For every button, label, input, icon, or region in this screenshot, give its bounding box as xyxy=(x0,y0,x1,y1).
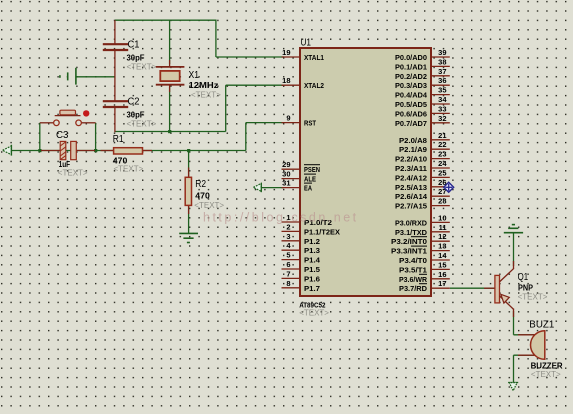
wire XTAL2 vertical xyxy=(225,85,227,131)
pin 26 P2.5/A13 stub xyxy=(431,186,450,188)
svg-text:P3.3/INT1: P3.3/INT1 xyxy=(391,247,427,256)
svg-text:P2.3/A11: P2.3/A11 xyxy=(395,164,427,173)
svg-text:37: 37 xyxy=(438,67,446,76)
svg-text:16: 16 xyxy=(438,270,446,279)
pin 18 XTAL2 stub xyxy=(282,84,301,86)
wire XTAL2 pin18 horizontal xyxy=(226,84,284,86)
svg-text:8: 8 xyxy=(286,279,290,288)
svg-text:32: 32 xyxy=(438,114,446,123)
svg-text:BUZ1: BUZ1 xyxy=(529,320,554,331)
junction crystal-bottom xyxy=(168,130,171,133)
pin 19 XTAL1 stub xyxy=(282,56,301,58)
transistor Q1 PNP xyxy=(495,268,514,309)
pin 12 P3.2/INT0 stub xyxy=(431,240,450,242)
wire Q1 collector to ground xyxy=(513,233,515,266)
overline WR xyxy=(419,273,427,275)
overline RD xyxy=(419,283,427,285)
wire into RST pin9 xyxy=(246,122,284,124)
svg-text:24: 24 xyxy=(438,159,447,168)
junction button-left xyxy=(38,149,41,152)
svg-text:U1: U1 xyxy=(301,38,312,49)
svg-text:34: 34 xyxy=(438,95,447,104)
svg-text:P0.1/AD1: P0.1/AD1 xyxy=(395,62,427,71)
pin segment R2 bottom xyxy=(188,205,190,214)
wire crystal top branch xyxy=(169,20,171,64)
svg-text:33: 33 xyxy=(438,104,446,113)
overline PSEN xyxy=(304,164,320,166)
wire button right branch vertical xyxy=(95,123,97,151)
pin segment button left xyxy=(40,122,54,124)
svg-text:<TEXT>: <TEXT> xyxy=(191,91,221,100)
svg-text:XTAL2: XTAL2 xyxy=(304,81,324,90)
svg-text:12: 12 xyxy=(438,232,446,241)
svg-text:29: 29 xyxy=(282,160,290,169)
wire into XTAL1 pin19 xyxy=(216,56,284,58)
svg-text:12MHz: 12MHz xyxy=(189,81,219,90)
pin segment Q1 base xyxy=(484,287,495,289)
pin segment Q1 collector xyxy=(513,261,515,269)
wire Q1 emitter down xyxy=(513,311,515,335)
pin 23 P2.2/A10 stub xyxy=(431,158,450,160)
wire ground tap C1/C2 midpoint xyxy=(76,76,115,78)
pin 35 P0.4/AD4 stub xyxy=(431,94,450,96)
svg-text:14: 14 xyxy=(438,251,447,260)
svg-text:ALE: ALE xyxy=(304,175,316,184)
pin 7 P1.6 stub xyxy=(282,277,301,279)
svg-text:18: 18 xyxy=(282,76,290,85)
svg-text:23: 23 xyxy=(438,150,446,159)
pin 36 P0.3/AD3 stub xyxy=(431,84,450,86)
capacitor C3 xyxy=(60,141,76,159)
pin 14 P3.4/T0 stub xyxy=(431,259,450,261)
svg-text:P0.6/AD6: P0.6/AD6 xyxy=(395,109,427,118)
pin 32 P0.7/AD7 stub xyxy=(431,122,450,124)
svg-text:15: 15 xyxy=(438,260,446,269)
pin 31 EA stub xyxy=(282,187,301,189)
svg-text:P2.6/A14: P2.6/A14 xyxy=(395,192,428,201)
svg-text:<TEXT>: <TEXT> xyxy=(127,120,157,129)
pin segment C3 right xyxy=(77,150,96,152)
wire crystal bottom branch xyxy=(169,87,171,132)
svg-text:21: 21 xyxy=(438,131,446,140)
pin 11 P3.1/TXD stub xyxy=(431,231,450,233)
resistor R1 xyxy=(114,148,143,154)
svg-text:PSEN: PSEN xyxy=(304,165,320,174)
svg-text:36: 36 xyxy=(438,76,446,85)
wire buzzer bottom pin xyxy=(514,354,536,356)
svg-text:P0.2/AD2: P0.2/AD2 xyxy=(395,72,427,81)
svg-text:P1.1/T2EX: P1.1/T2EX xyxy=(304,227,340,236)
wire buzzer to output terminal xyxy=(513,355,515,382)
svg-text:P1.7: P1.7 xyxy=(304,284,320,293)
capacitor C1 xyxy=(103,20,128,100)
svg-text:P1.4: P1.4 xyxy=(304,256,321,265)
pin 13 P3.3/INT1 stub xyxy=(431,250,450,252)
pin 34 P0.5/AD5 stub xyxy=(431,103,450,105)
svg-text:P0.7/AD7: P0.7/AD7 xyxy=(395,119,427,128)
svg-text:P3.0/RXD: P3.0/RXD xyxy=(395,218,428,227)
pin segment buzzer bottom xyxy=(518,354,535,356)
svg-text:38: 38 xyxy=(438,57,446,66)
pin 29 PSEN stub xyxy=(282,168,301,170)
svg-text:P0.0/AD0: P0.0/AD0 xyxy=(395,53,427,62)
overline INT1 xyxy=(411,245,427,247)
svg-text:P1.6: P1.6 xyxy=(304,274,320,283)
svg-text:P1.3: P1.3 xyxy=(304,246,320,255)
svg-text:10: 10 xyxy=(438,213,446,222)
svg-text:25: 25 xyxy=(438,168,446,177)
svg-text:C2: C2 xyxy=(128,97,140,108)
svg-text:3: 3 xyxy=(286,232,290,241)
svg-text:P2.7/A15: P2.7/A15 xyxy=(395,202,427,211)
wire P3.7 to Q1 base xyxy=(450,287,495,289)
svg-text:22: 22 xyxy=(438,140,446,149)
svg-text:13: 13 xyxy=(438,242,446,251)
svg-text:http://blog.csdn.net: http://blog.csdn.net xyxy=(203,211,359,225)
wire EA pin31 to terminal xyxy=(261,187,284,189)
svg-text:X1: X1 xyxy=(189,70,200,81)
svg-text:Q1: Q1 xyxy=(518,272,529,283)
svg-text:P3.7/RD: P3.7/RD xyxy=(399,284,428,293)
pin 24 P2.3/A11 stub xyxy=(431,167,450,169)
pin segment crystal top xyxy=(169,60,171,67)
wire button left branch vertical xyxy=(39,123,41,151)
svg-text:19: 19 xyxy=(282,48,290,57)
svg-text:P3.2/INT0: P3.2/INT0 xyxy=(391,237,427,246)
overline ALE xyxy=(304,173,316,175)
svg-text:5: 5 xyxy=(286,251,290,260)
svg-text:C3: C3 xyxy=(56,130,69,141)
pin 37 P0.2/AD2 stub xyxy=(431,75,450,77)
svg-text:<TEXT>: <TEXT> xyxy=(127,63,157,72)
svg-text:R1: R1 xyxy=(113,134,124,145)
buzzer BUZ1 xyxy=(531,331,545,360)
pin 5 P1.4 stub xyxy=(282,259,301,261)
pin 2 P1.1/T2EX stub xyxy=(282,230,301,232)
pin 17 P3.7/RD stub xyxy=(431,287,450,289)
svg-text:RST: RST xyxy=(304,119,316,128)
svg-text:P0.4/AD4: P0.4/AD4 xyxy=(395,91,428,100)
pin 10 P3.0/RXD stub xyxy=(431,221,450,223)
pin segment button right xyxy=(81,122,95,124)
microcontroller U1 AT89C52 xyxy=(282,38,450,297)
ground above Q1 collector (flipped) xyxy=(504,225,523,233)
svg-text:<TEXT>: <TEXT> xyxy=(531,370,561,379)
op-amp-style chip body U1 AT89C52 xyxy=(300,48,431,296)
ground below R2 xyxy=(179,233,198,242)
pin 15 P3.5/T1 stub xyxy=(431,268,450,270)
junction R2-tap xyxy=(187,149,190,152)
pin 39 P0.0/AD0 stub xyxy=(431,56,450,58)
svg-text:P0.3/AD3: P0.3/AD3 xyxy=(395,81,427,90)
pin segment R2 top xyxy=(188,168,190,178)
wire vertical down to XTAL1 row xyxy=(215,20,217,58)
svg-text:PNP: PNP xyxy=(518,284,534,293)
pin 28 P2.7/A15 stub xyxy=(431,205,450,207)
wire up to RST xyxy=(245,123,247,151)
pin 8 P1.7 stub xyxy=(282,287,301,289)
svg-text:39: 39 xyxy=(438,48,446,57)
blue wire-end cursor marker at pin 26 xyxy=(444,182,454,192)
wire top rail C1-top to XTAL1 branch xyxy=(115,19,216,21)
terminal output arrow down (buzzer net) xyxy=(508,383,518,391)
pin 22 P2.1/A9 stub xyxy=(431,148,450,150)
pin 27 P2.6/A14 stub xyxy=(431,195,450,197)
pin segment crystal bottom xyxy=(169,85,171,92)
svg-text:<TEXT>: <TEXT> xyxy=(518,293,548,302)
junction button-right xyxy=(94,149,97,152)
svg-text:28: 28 xyxy=(438,197,446,206)
svg-text:P3.6/WR: P3.6/WR xyxy=(399,275,428,284)
pin 25 P2.4/A12 stub xyxy=(431,176,450,178)
svg-text:P3.5/T1: P3.5/T1 xyxy=(399,265,427,274)
button red indicator dot xyxy=(83,110,89,116)
svg-text:P2.5/A13: P2.5/A13 xyxy=(395,183,427,192)
pin 33 P0.6/AD6 stub xyxy=(431,112,450,114)
pin segment buzzer top xyxy=(518,334,535,336)
capacitor C2 xyxy=(103,101,128,132)
svg-text:P1.5: P1.5 xyxy=(304,265,320,274)
wire R2 to ground xyxy=(188,205,190,233)
svg-text:C1: C1 xyxy=(128,40,140,51)
svg-text:P3.4/T0: P3.4/T0 xyxy=(399,256,427,265)
svg-text:9: 9 xyxy=(286,114,290,123)
svg-text:<TEXT>: <TEXT> xyxy=(299,309,329,318)
terminal input arrow EA xyxy=(253,183,261,192)
pin segment R1 right xyxy=(143,150,153,152)
pin 1 P1.0/T2 stub xyxy=(282,221,301,223)
push button xyxy=(54,110,82,125)
svg-text:P2.1/A9: P2.1/A9 xyxy=(399,145,427,154)
svg-text:XTAL1: XTAL1 xyxy=(304,53,324,62)
pin segment C3 left xyxy=(41,150,60,152)
svg-text:30pF: 30pF xyxy=(127,54,145,63)
wire bottom of crystal to C2 xyxy=(115,131,226,133)
pin 6 P1.5 stub xyxy=(282,268,301,270)
pin 30 ALE stub xyxy=(282,178,301,180)
svg-text:R2: R2 xyxy=(195,179,206,190)
svg-text:<TEXT>: <TEXT> xyxy=(114,165,144,174)
svg-text:17: 17 xyxy=(438,279,446,288)
svg-text:P2.4/A12: P2.4/A12 xyxy=(395,173,427,182)
ground left (C1/C2 midpoint) xyxy=(60,68,76,85)
svg-text:31: 31 xyxy=(282,179,290,188)
svg-text:P2.0/A8: P2.0/A8 xyxy=(399,136,427,145)
svg-text:30pF: 30pF xyxy=(127,111,145,120)
svg-text:7: 7 xyxy=(286,269,290,278)
svg-text:<TEXT>: <TEXT> xyxy=(194,201,224,210)
crystal X1 xyxy=(156,67,185,85)
svg-text:6: 6 xyxy=(286,260,290,269)
svg-text:30: 30 xyxy=(282,170,290,179)
svg-text:35: 35 xyxy=(438,86,446,95)
pin segment R1 left xyxy=(101,150,114,152)
svg-text:11: 11 xyxy=(439,223,447,232)
pin segment Q1 emitter xyxy=(513,309,515,318)
pin 3 P1.2 stub xyxy=(282,240,301,242)
svg-text:P1.2: P1.2 xyxy=(304,237,320,246)
overline EA xyxy=(304,182,312,184)
wire main reset net horizontal xyxy=(11,150,246,152)
svg-text:EA: EA xyxy=(304,184,312,193)
wire into buzzer top pin xyxy=(514,334,536,336)
svg-text:P0.5/AD5: P0.5/AD5 xyxy=(395,100,427,109)
svg-text:P2.2/A10: P2.2/A10 xyxy=(395,155,427,164)
overline INT0 xyxy=(411,236,427,238)
svg-text:P3.1/TXD: P3.1/TXD xyxy=(395,228,428,237)
pin 9 RST stub xyxy=(282,122,301,124)
wire R2 branch vertical xyxy=(188,151,190,178)
pin 21 P2.0/A8 stub xyxy=(431,139,450,141)
pin 4 P1.3 stub xyxy=(282,249,301,251)
pin 38 P0.1/AD1 stub xyxy=(431,65,450,67)
svg-text:<TEXT>: <TEXT> xyxy=(58,169,88,178)
terminal input arrow left (reset net) xyxy=(3,145,12,156)
resistor R2 xyxy=(185,177,191,205)
pin 16 P3.6/WR stub xyxy=(431,278,450,280)
svg-text:470: 470 xyxy=(195,192,210,201)
